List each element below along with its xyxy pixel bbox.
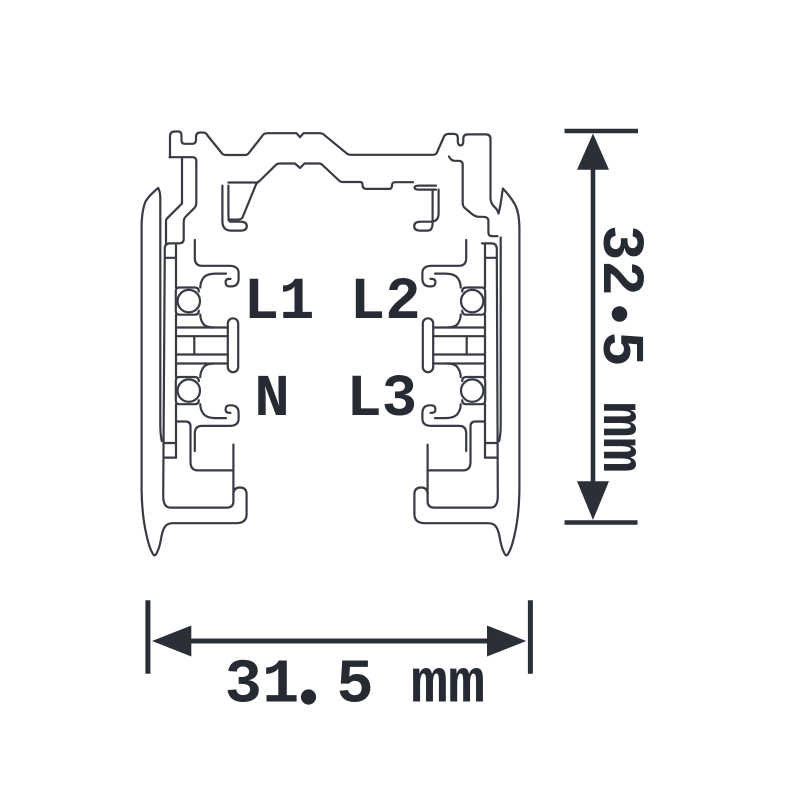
svg-text:32 5 mm: 32 5 mm	[586, 225, 653, 473]
svg-text:L1 L2: L1 L2	[244, 269, 421, 336]
svg-text:31 5 mm: 31 5 mm	[225, 650, 485, 721]
svg-text:L3: L3	[346, 366, 417, 433]
svg-text:N: N	[254, 366, 289, 433]
